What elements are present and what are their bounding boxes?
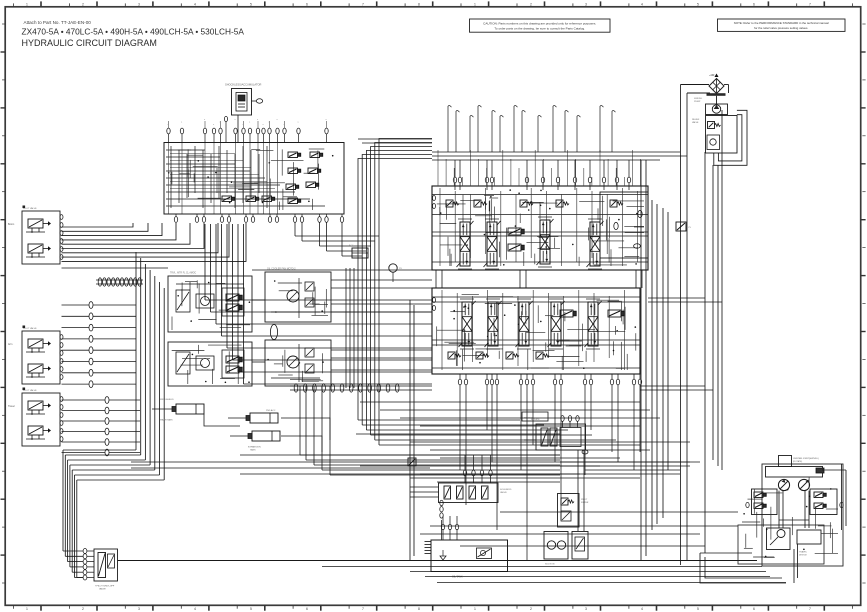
travel channel wires <box>779 491 809 528</box>
svg-text:6: 6 <box>306 2 308 6</box>
svg-text:WINDSHIELD: WINDSHIELD <box>160 399 174 401</box>
svg-text:7: 7 <box>809 607 811 611</box>
svg-text:CENTER JOINT(SWIVEL): CENTER JOINT(SWIVEL) <box>793 458 819 460</box>
svg-text:PILOT VALVE: PILOT VALVE <box>23 327 37 330</box>
MCV spool travel-L <box>585 299 602 349</box>
accumulator cylinder C1 <box>152 399 204 422</box>
svg-text:Arm: Arm <box>8 343 12 346</box>
oil cooler fan motor box RB1 <box>265 268 331 323</box>
wires MCV bottom descend <box>460 396 640 560</box>
svg-text:TANK: TANK <box>250 449 256 452</box>
check valve glyph right <box>676 222 692 231</box>
travel motor left <box>778 479 789 490</box>
svg-text:for the relief valve pressure: for the relief valve pressure setting va… <box>754 26 808 30</box>
wire bottom corner nest <box>700 553 786 583</box>
travel top-right glyph <box>816 468 824 473</box>
oil cooler fan motor box RB2 <box>265 340 331 386</box>
note box <box>718 19 846 31</box>
wire SB3 down leads <box>524 440 584 531</box>
wire accumulator drop <box>224 115 238 142</box>
wire verticals below solenoid block <box>205 224 432 384</box>
caution box <box>470 19 611 32</box>
swing motor box <box>767 528 791 550</box>
svg-text:3: 3 <box>138 607 140 611</box>
svg-text:SOLENOID: SOLENOID <box>500 489 512 491</box>
svg-text:TRAVEL: TRAVEL <box>799 551 808 554</box>
pilot valve PV3 (travel) <box>8 388 63 447</box>
wire breather duct <box>681 85 729 94</box>
MCV spool boom1 <box>457 219 474 269</box>
flow control valve box LB1 <box>168 272 252 333</box>
svg-text:Boom: Boom <box>8 223 14 226</box>
svg-text:FILTER: FILTER <box>581 502 589 504</box>
travel outer right edge wires <box>822 464 846 530</box>
svg-text:8: 8 <box>418 2 420 6</box>
svg-text:2: 2 <box>530 607 532 611</box>
svg-text:1: 1 <box>474 607 476 611</box>
solenoid valve block <box>164 143 344 215</box>
svg-text:6: 6 <box>753 607 755 611</box>
wire bundle corner to main valve <box>358 139 432 446</box>
svg-text:4: 4 <box>194 607 196 611</box>
pump box <box>694 96 728 115</box>
flow control valve box LB2 <box>168 342 252 386</box>
svg-text:TRVL. MTR FL CL AMOC: TRVL. MTR FL CL AMOC <box>170 272 197 275</box>
travel valve block left <box>746 489 777 515</box>
hbus above MCV <box>358 139 687 160</box>
svg-text:PILOT: PILOT <box>581 499 588 501</box>
svg-text:OIL TANK: OIL TANK <box>452 576 463 579</box>
small ellipse node A <box>582 450 588 454</box>
svg-text:4: 4 <box>641 2 643 6</box>
MCV spool arm2 <box>516 299 533 349</box>
svg-text:2: 2 <box>82 2 84 6</box>
travel area clutter <box>742 477 838 557</box>
svg-text:VALVE: VALVE <box>692 121 699 124</box>
node ellipse center <box>270 325 277 340</box>
svg-text:3: 3 <box>585 2 587 6</box>
main control valve bottom section <box>432 288 640 374</box>
4-unit solenoid valve SB2 <box>439 483 512 503</box>
MCV spool aux <box>548 299 565 349</box>
svg-text:3: 3 <box>138 2 140 6</box>
travel motor right <box>798 479 809 490</box>
MCV section connectors <box>436 270 642 288</box>
svg-text:DEVICE: DEVICE <box>799 555 807 557</box>
MCV spool arm1 <box>484 219 501 269</box>
MCV right port section <box>600 192 648 258</box>
svg-text:SUCTION: SUCTION <box>545 564 555 566</box>
FG nested outline <box>714 110 747 165</box>
PSV coupler ladder <box>83 549 94 581</box>
wire right horizontal pairs <box>560 298 722 470</box>
pilot valve PV2 (arm/swing) <box>8 326 63 385</box>
coupler ladder CL2 <box>62 397 141 456</box>
svg-text:PILOT VALVE: PILOT VALVE <box>23 207 37 210</box>
travel valve block right <box>810 489 843 515</box>
svg-text:5: 5 <box>697 607 699 611</box>
wire right verticals group1 <box>641 160 668 560</box>
svg-text:Attach to Part No. TT-JAE-EN-0: Attach to Part No. TT-JAE-EN-00 <box>24 20 92 25</box>
svg-text:VALVE: VALVE <box>500 491 507 494</box>
MCV top sub-valves <box>446 200 623 251</box>
svg-text:ACC: ACC <box>349 244 354 247</box>
svg-text:8: 8 <box>418 607 420 611</box>
svg-text:5: 5 <box>250 2 252 6</box>
svg-text:5: 5 <box>697 2 699 6</box>
MCV hook stubs top <box>448 106 615 152</box>
svg-text:EXPANSION: EXPANSION <box>248 446 261 449</box>
2-spool solenoid block SB3 <box>531 418 586 450</box>
wire staircase pilot to solenoid block <box>62 223 247 261</box>
svg-text:PILOT VALVE: PILOT VALVE <box>23 389 37 392</box>
hydraulic tank <box>425 540 508 579</box>
small valve glyph mid <box>408 458 416 466</box>
wire bundle left descent <box>63 252 164 578</box>
pilot filter box <box>558 494 589 528</box>
main control valve top section <box>432 186 648 270</box>
svg-text:3: 3 <box>585 607 587 611</box>
MCV bottom left edge ports <box>433 298 436 311</box>
svg-text:SWIVEL: SWIVEL <box>694 98 703 100</box>
solenoid block top ports <box>167 119 328 143</box>
SB2 top ports <box>463 455 492 483</box>
swing gear box <box>797 530 821 557</box>
relief valve box FG <box>692 116 737 154</box>
svg-text:HYDRAULIC CIRCUIT DIAGRAM: HYDRAULIC CIRCUIT DIAGRAM <box>22 38 157 48</box>
center joint box <box>779 456 819 467</box>
MCV top ports and stubs <box>453 160 630 190</box>
wire solenoid right ports to corner bundle <box>295 222 379 256</box>
svg-text:7: 7 <box>362 607 364 611</box>
SB3 top ports <box>561 416 579 428</box>
wire between LB and RB columns <box>346 268 354 388</box>
accumulator <box>232 89 252 116</box>
solenoid block pilot valves <box>222 152 323 204</box>
svg-text:2: 2 <box>82 607 84 611</box>
svg-text:7: 7 <box>809 2 811 6</box>
svg-text:PUMP: PUMP <box>694 101 701 103</box>
svg-text:6: 6 <box>306 607 308 611</box>
MCV spool boom2 <box>485 299 502 349</box>
MCV left edge ports <box>433 196 436 209</box>
svg-text:6: 6 <box>753 2 755 6</box>
svg-text:NOTE: Refer to the PERFORMANCE: NOTE: Refer to the PERFORMANCE STANDARD … <box>734 21 829 25</box>
svg-text:2ND ACC: 2ND ACC <box>266 409 276 412</box>
svg-text:Travel: Travel <box>8 405 15 408</box>
svg-text:4: 4 <box>194 2 196 6</box>
MCV spool swing <box>459 299 476 349</box>
svg-text:1: 1 <box>26 2 28 6</box>
MCV spool bucket <box>537 217 554 267</box>
svg-text:2: 2 <box>530 2 532 6</box>
accumulator cylinder C2 <box>228 409 278 423</box>
MCV spool travel-R <box>587 219 604 269</box>
solenoid block pass-through wires <box>169 143 278 214</box>
pilot shut-off valve <box>94 549 118 591</box>
MCV mid connectors extra <box>520 270 526 288</box>
wire RB columns down <box>300 386 560 475</box>
svg-text:4: 4 <box>641 607 643 611</box>
travel device outline <box>738 464 843 566</box>
gauge box 1 <box>544 532 568 566</box>
SB2 left couplers <box>440 500 443 540</box>
tank plate <box>707 93 726 96</box>
svg-text:1: 1 <box>474 2 476 6</box>
wire travel drop pair <box>794 544 798 583</box>
tank top couplers <box>441 516 458 540</box>
svg-text:RELIEF: RELIEF <box>692 119 700 121</box>
pressure sensor glyph <box>349 244 402 282</box>
accumulator test port <box>252 99 263 103</box>
solenoid block bottom ports <box>174 214 343 222</box>
svg-text:ZX470-5A • 470LC-5A • 490H-5A: ZX470-5A • 470LC-5A • 490H-5A • 490LCH-5… <box>22 27 245 37</box>
svg-text:▪ PILOT SHUT-OFF: ▪ PILOT SHUT-OFF <box>95 586 115 588</box>
wire center boxes to MCV <box>62 268 433 370</box>
svg-text:7: 7 <box>362 2 364 6</box>
svg-text:ROTATE: ROTATE <box>531 418 540 421</box>
MCV bottom ports <box>458 374 641 396</box>
coupler ladder CL1 <box>62 302 137 388</box>
pilot check box below MCV <box>522 412 548 421</box>
svg-text:1: 1 <box>26 607 28 611</box>
wire right verticals group2 <box>681 85 723 566</box>
svg-text:5: 5 <box>250 607 252 611</box>
svg-text:VALVE: VALVE <box>99 588 106 591</box>
wire crossings below MCV <box>356 402 690 474</box>
wire bundle lower fan to right <box>358 420 640 445</box>
solenoid block internal bus <box>166 146 334 210</box>
svg-text:SHOCKLESS/ACCUMULATOR: SHOCKLESS/ACCUMULATOR <box>225 83 261 87</box>
svg-text:(ROTATE): (ROTATE) <box>793 460 802 463</box>
MCV bottom sub-valves <box>448 310 624 359</box>
air breather diamond <box>709 74 724 94</box>
MCV stems above <box>438 150 641 186</box>
gauge box 2 <box>572 532 588 560</box>
pilot valve PV1 (front attachment) <box>8 206 63 265</box>
coupler row CR1 <box>96 278 143 286</box>
svg-text:CV: CV <box>688 227 692 229</box>
svg-text:To order parts on the drawing,: To order parts on the drawing, be sure t… <box>494 27 585 31</box>
wire lower mid horizontals <box>131 455 690 482</box>
svg-text:▪ AIR: ▪ AIR <box>709 74 715 77</box>
svg-text:WASH TANK: WASH TANK <box>160 419 173 422</box>
wire bottom bus <box>118 512 787 583</box>
accumulator cylinder C3 <box>230 431 280 452</box>
coupler row R2 <box>290 384 432 392</box>
wire cylinders to bundle <box>204 414 330 452</box>
svg-text:CAUTION: Parts numbers on this: CAUTION: Parts numbers on this drawing a… <box>483 21 596 25</box>
travel frame bar <box>766 467 823 478</box>
wire SB2 left leads <box>410 300 439 560</box>
